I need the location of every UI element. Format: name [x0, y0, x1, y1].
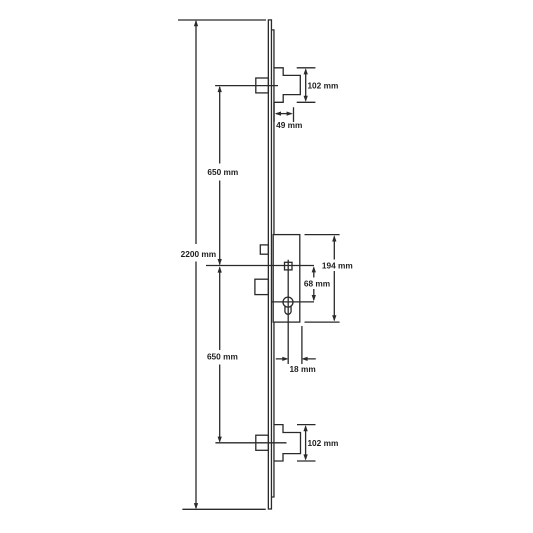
centerline through spindle and cylinder: [287, 260, 289, 364]
cylinder reference line: [272, 301, 315, 303]
arrow 2200 bottom: [194, 503, 198, 509]
arrow 49 left: [275, 111, 281, 115]
dim 102 top extensions: [297, 68, 316, 103]
center reference line: [206, 265, 314, 267]
svg-text:102 mm: 102 mm: [307, 438, 338, 448]
faceplate strip: [268, 20, 271, 509]
deadbolt: [255, 279, 269, 294]
top block rear plate: [256, 78, 269, 93]
svg-text:194 mm: 194 mm: [322, 260, 353, 270]
dim 2200 line: [195, 21, 197, 508]
latch bolt: [260, 245, 268, 254]
dim 194 line: [333, 237, 335, 321]
arrow 18 right-pointing-left: [301, 357, 307, 361]
arrow 102 bottom upper: [303, 425, 307, 431]
bottom block reference line: [215, 442, 286, 444]
arrow 194 top: [332, 235, 336, 241]
arrow 102 bottom lower: [303, 454, 307, 460]
svg-text:2200 mm: 2200 mm: [181, 249, 217, 259]
arrow 68 top: [312, 266, 316, 272]
top block reference line: [215, 85, 278, 87]
bottom block casing with bolt: [274, 425, 300, 461]
arrow 650 upper top: [218, 86, 222, 92]
svg-text:49 mm: 49 mm: [276, 120, 302, 130]
dim 49 line: [276, 113, 292, 115]
top block casing with bolt: [274, 68, 300, 103]
arrow 68 bottom: [312, 295, 316, 301]
svg-text:102 mm: 102 mm: [307, 80, 338, 90]
arrow 102 top upper: [304, 68, 308, 74]
bottom extension line: [182, 508, 265, 510]
svg-text:650 mm: 650 mm: [207, 352, 238, 362]
svg-text:650 mm: 650 mm: [207, 167, 238, 177]
top extension line: [178, 19, 266, 21]
channel rail: [272, 30, 274, 497]
arrow 49 right: [287, 111, 293, 115]
arrow 2200 top: [194, 20, 198, 26]
svg-text:18 mm: 18 mm: [289, 364, 315, 374]
dim 650 upper line: [219, 87, 221, 265]
euro cylinder circle: [283, 297, 293, 307]
arrow 102 top lower: [304, 96, 308, 102]
dim 194 extensions: [305, 235, 340, 323]
euro cylinder slot: [285, 306, 291, 314]
dim 102 bottom line: [305, 427, 307, 460]
arrow 650 lower bottom: [218, 437, 222, 443]
dim 102 top line: [305, 70, 307, 101]
dim 650 lower line: [219, 268, 221, 442]
dim 49 extensions: [274, 102, 293, 122]
arrow 650 lower top: [218, 266, 222, 272]
arrow 194 bottom: [332, 315, 336, 321]
dim 68 line: [313, 268, 315, 301]
dim 18 lines: [276, 358, 316, 360]
arrow 18 left-pointing-right: [282, 357, 288, 361]
arrow 650 upper bottom: [218, 259, 222, 265]
dim 18 extensions: [301, 326, 303, 364]
lock case: [273, 235, 300, 323]
spindle square: [285, 262, 293, 270]
dim 102 bottom extensions: [297, 425, 316, 461]
bottom block rear plate: [256, 435, 269, 450]
svg-text:68 mm: 68 mm: [304, 278, 330, 288]
